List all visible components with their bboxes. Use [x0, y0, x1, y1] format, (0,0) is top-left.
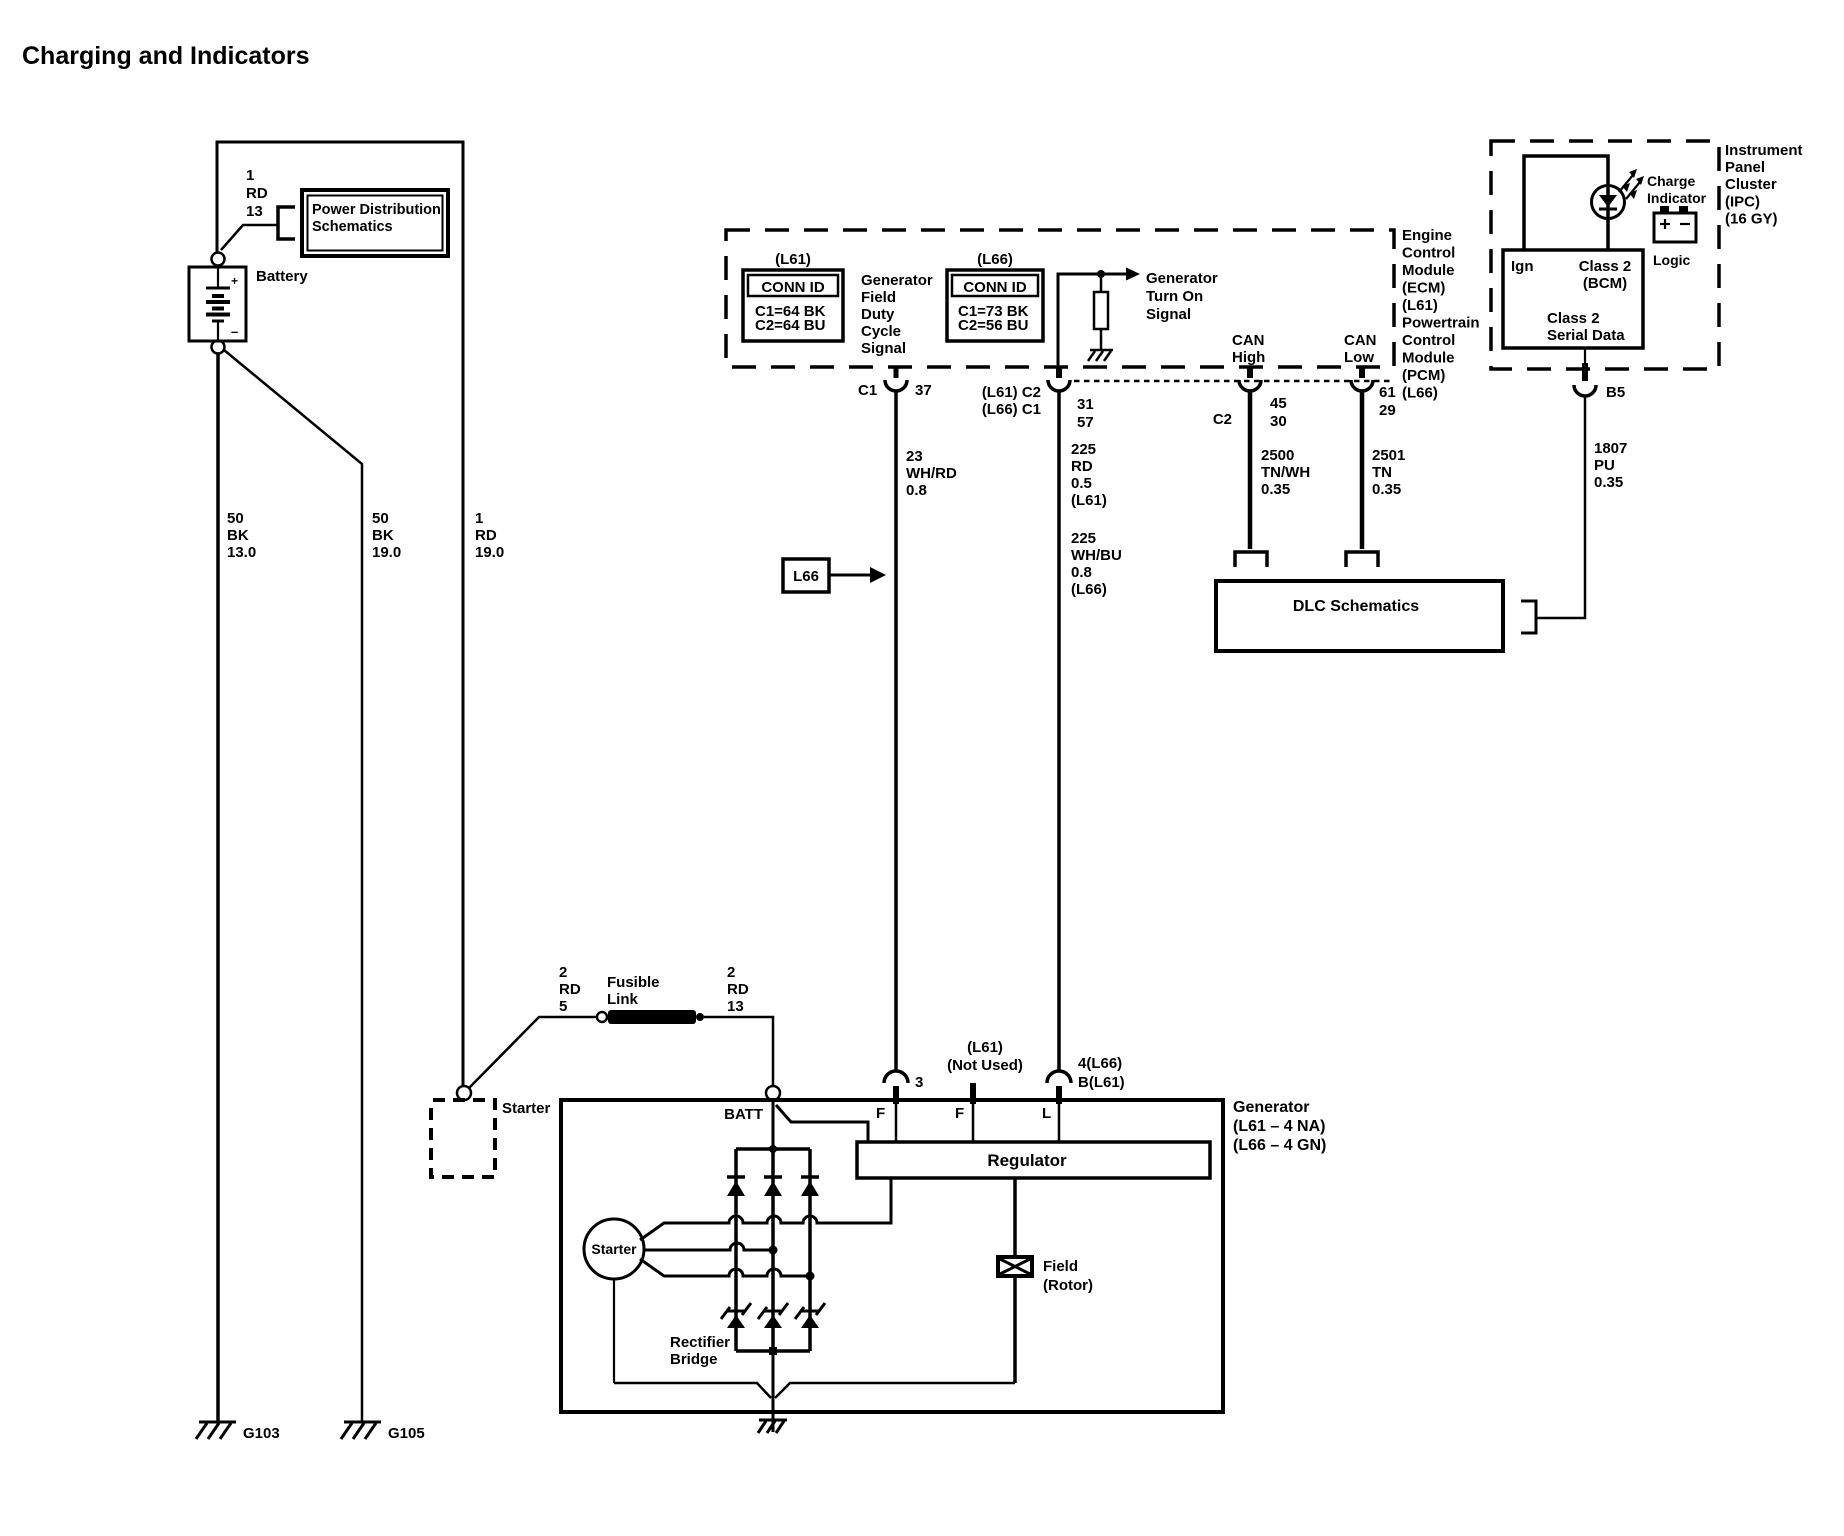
- svg-text:13: 13: [246, 203, 263, 220]
- wire IPC internal loop: [1524, 156, 1608, 250]
- wire F pin into regulator: [895, 1104, 898, 1142]
- box Class 2 (BCM) / Class 2 Serial Data: [1503, 250, 1643, 348]
- svg-text:Duty: Duty: [861, 306, 895, 323]
- svg-text:0.8: 0.8: [906, 482, 927, 499]
- svg-text:BK: BK: [227, 527, 249, 544]
- svg-text:RD: RD: [559, 981, 581, 998]
- svg-text:1807: 1807: [1594, 440, 1627, 457]
- svg-text:CONN ID: CONN ID: [963, 279, 1027, 296]
- svg-text:61: 61: [1379, 384, 1396, 401]
- svg-text:TN/WH: TN/WH: [1261, 464, 1310, 481]
- svg-text:CAN: CAN: [1232, 332, 1265, 349]
- L66 callout box: [783, 559, 829, 592]
- stator phase wire 1: [640, 1178, 891, 1240]
- svg-text:Signal: Signal: [861, 340, 906, 357]
- connector C1 pin 37 at ECM: [894, 366, 899, 378]
- wire battery feed loop top: [216, 141, 465, 144]
- box Power Distribution Schematics: [302, 190, 448, 256]
- svg-text:Instrument: Instrument: [1725, 142, 1803, 159]
- node starter feed junction: [457, 1086, 471, 1100]
- connector L pin at generator: [1047, 1071, 1071, 1083]
- svg-text:Rectifier: Rectifier: [670, 1334, 730, 1351]
- svg-text:13: 13: [727, 998, 744, 1015]
- wire right drop to starter: [462, 142, 465, 1086]
- wire L pin into regulator: [1058, 1104, 1061, 1142]
- svg-text:RD: RD: [727, 981, 749, 998]
- dotted connector continuation line: [1074, 380, 1392, 383]
- svg-text:(ECM): (ECM): [1402, 280, 1445, 297]
- svg-text:Control: Control: [1402, 245, 1455, 262]
- resistor pull-down R1: [1100, 274, 1103, 292]
- wire class 2 serial data to DLC: [1537, 396, 1585, 618]
- svg-text:L66: L66: [793, 568, 819, 585]
- svg-text:(L61): (L61): [1402, 297, 1438, 314]
- svg-text:Class 2: Class 2: [1579, 258, 1632, 275]
- node battery negative terminal: [212, 341, 225, 354]
- wire fusible link to BATT: [704, 1017, 773, 1086]
- svg-text:0.8: 0.8: [1071, 564, 1092, 581]
- svg-text:1: 1: [246, 167, 254, 184]
- svg-text:(Not Used): (Not Used): [947, 1057, 1023, 1074]
- wire CAN Low 2501 TN 0.35: [1360, 391, 1365, 549]
- svg-text:23: 23: [906, 448, 923, 465]
- svg-text:C2: C2: [1213, 411, 1232, 428]
- svg-text:Cluster: Cluster: [1725, 176, 1777, 193]
- svg-text:CONN ID: CONN ID: [761, 279, 825, 296]
- svg-text:L: L: [1042, 1105, 1051, 1122]
- svg-text:19.0: 19.0: [475, 544, 504, 561]
- LED charge indicator: [1592, 186, 1625, 219]
- rectifier bridge top bus: [736, 1147, 810, 1151]
- svg-text:Module: Module: [1402, 262, 1455, 279]
- bridge vertical phase legs: [734, 1149, 738, 1351]
- svg-text:(IPC): (IPC): [1725, 194, 1760, 211]
- zener diode Z3: [795, 1303, 825, 1328]
- arrow turn-on signal: [1126, 268, 1140, 281]
- connector DLC right cavity: [1521, 601, 1536, 633]
- svg-text:(L61): (L61): [775, 251, 811, 268]
- connector C2/C1 pin at ECM: [1056, 366, 1062, 378]
- svg-text:B(L61): B(L61): [1078, 1074, 1125, 1091]
- CONN ID table L61: [743, 270, 843, 341]
- svg-text:Schematics: Schematics: [312, 219, 393, 235]
- zener diode Z2: [758, 1303, 788, 1328]
- lightning arrows: [1619, 169, 1644, 199]
- node BATT terminal: [766, 1086, 780, 1100]
- svg-text:–: –: [231, 324, 238, 339]
- svg-text:0.35: 0.35: [1261, 481, 1290, 498]
- svg-text:(16 GY): (16 GY): [1725, 211, 1778, 228]
- connector B5 at IPC: [1584, 348, 1586, 363]
- wire battery negative diagonal branch: [224, 350, 362, 1421]
- svg-text:Cycle: Cycle: [861, 323, 901, 340]
- svg-text:TN: TN: [1372, 464, 1392, 481]
- svg-text:RD: RD: [246, 185, 268, 202]
- arrow L66 to wire: [829, 574, 871, 577]
- svg-text:WH/BU: WH/BU: [1071, 547, 1122, 564]
- svg-text:(L66): (L66): [977, 251, 1013, 268]
- wire 225 RD / WH-BU: [1057, 391, 1061, 1070]
- wire left drop to battery +: [216, 142, 219, 253]
- wire battery + to Power Distribution bracket: [221, 225, 277, 250]
- svg-text:37: 37: [915, 382, 932, 399]
- svg-text:Power Distribution: Power Distribution: [312, 202, 441, 218]
- wire bridge to ground: [772, 1351, 775, 1432]
- svg-text:DLC Schematics: DLC Schematics: [1293, 598, 1419, 615]
- rectifier bridge bottom bus: [736, 1349, 810, 1353]
- svg-text:(PCM): (PCM): [1402, 367, 1445, 384]
- stator phase wire 3: [640, 1259, 810, 1276]
- svg-text:(L66 – 4 GN): (L66 – 4 GN): [1233, 1137, 1326, 1154]
- svg-text:(L61) C2: (L61) C2: [982, 384, 1041, 401]
- svg-text:(L66): (L66): [1071, 581, 1107, 598]
- svg-text:Regulator: Regulator: [987, 1151, 1067, 1170]
- wire regulator to field: [1013, 1178, 1017, 1257]
- svg-text:Field: Field: [1043, 1258, 1078, 1275]
- svg-text:0.35: 0.35: [1372, 481, 1401, 498]
- svg-text:2500: 2500: [1261, 447, 1294, 464]
- svg-text:Field: Field: [861, 289, 896, 306]
- svg-text:Generator: Generator: [1146, 270, 1218, 287]
- node battery positive terminal: [212, 253, 225, 266]
- svg-text:(L66) C1: (L66) C1: [982, 401, 1041, 418]
- svg-text:RD: RD: [475, 527, 497, 544]
- svg-text:Indicator: Indicator: [1647, 190, 1707, 206]
- svg-text:Ign: Ign: [1511, 258, 1534, 275]
- svg-text:Logic: Logic: [1653, 252, 1691, 268]
- svg-text:Serial Data: Serial Data: [1547, 327, 1625, 344]
- svg-text:50: 50: [227, 510, 244, 527]
- svg-text:225: 225: [1071, 441, 1096, 458]
- svg-text:F: F: [955, 1105, 964, 1122]
- svg-text:Generator: Generator: [861, 272, 933, 289]
- connector CAN Low pin: [1359, 366, 1365, 378]
- svg-text:Bridge: Bridge: [670, 1351, 718, 1368]
- svg-text:(L61 – 4 NA): (L61 – 4 NA): [1233, 1118, 1325, 1135]
- box DLC Schematics: [1216, 581, 1503, 651]
- diode D3: [801, 1177, 819, 1196]
- svg-text:0.35: 0.35: [1594, 474, 1623, 491]
- svg-text:(L66): (L66): [1402, 385, 1438, 402]
- wire starter junction to fusible link: [469, 1017, 597, 1088]
- svg-text:Low: Low: [1344, 349, 1374, 366]
- svg-text:50: 50: [372, 510, 389, 527]
- battery B1: [189, 266, 246, 341]
- wire starter to ground bus: [613, 1279, 615, 1383]
- stator phase wire 2: [644, 1243, 773, 1250]
- wire CAN High 2500 TN/WH 0.35: [1248, 391, 1253, 549]
- wire BATT into regulator: [776, 1105, 868, 1142]
- svg-text:Powertrain: Powertrain: [1402, 315, 1480, 332]
- pin F not used: [970, 1083, 976, 1104]
- svg-text:Generator: Generator: [1233, 1099, 1309, 1116]
- connector F pin 3 at generator: [884, 1071, 908, 1083]
- wire battery negative to G103: [216, 354, 220, 1421]
- wire F2 pin into regulator: [972, 1104, 975, 1142]
- wire field to ground bus: [1013, 1276, 1017, 1383]
- fusible link F1: [597, 1012, 607, 1022]
- svg-text:RD: RD: [1071, 458, 1093, 475]
- connector DLC CAN High cavity: [1235, 552, 1267, 567]
- svg-text:Fusible: Fusible: [607, 974, 660, 991]
- svg-text:B5: B5: [1606, 384, 1625, 401]
- svg-text:5: 5: [559, 998, 567, 1015]
- svg-text:High: High: [1232, 349, 1265, 366]
- svg-text:CAN: CAN: [1344, 332, 1377, 349]
- svg-text:Charge: Charge: [1647, 173, 1695, 189]
- starter motor circle: [584, 1219, 644, 1279]
- svg-text:C2=64 BU: C2=64 BU: [755, 317, 825, 334]
- svg-text:2501: 2501: [1372, 447, 1405, 464]
- ground bus right: [775, 1383, 1015, 1398]
- connector DLC CAN Low cavity: [1346, 552, 1378, 567]
- generator box: [561, 1100, 1223, 1412]
- svg-text:Charging and Indicators: Charging and Indicators: [22, 42, 310, 70]
- svg-text:2: 2: [559, 964, 567, 981]
- svg-text:225: 225: [1071, 530, 1096, 547]
- svg-text:BATT: BATT: [724, 1106, 763, 1123]
- ECM/PCM dashed box: [726, 230, 1394, 367]
- svg-text:Starter: Starter: [502, 1100, 551, 1117]
- svg-text:BK: BK: [372, 527, 394, 544]
- svg-text:0.5: 0.5: [1071, 475, 1092, 492]
- svg-text:Turn On: Turn On: [1146, 288, 1203, 305]
- connector CAN High pin: [1247, 366, 1253, 378]
- svg-text:PU: PU: [1594, 457, 1615, 474]
- starter dashed box: [431, 1100, 495, 1177]
- svg-text:Link: Link: [607, 991, 638, 1008]
- svg-text:13.0: 13.0: [227, 544, 256, 561]
- svg-text:Control: Control: [1402, 332, 1455, 349]
- svg-text:(BCM): (BCM): [1583, 275, 1627, 292]
- svg-text:Engine: Engine: [1402, 227, 1452, 244]
- svg-text:Starter: Starter: [591, 1241, 637, 1257]
- svg-text:C1: C1: [858, 382, 877, 399]
- svg-text:4(L66): 4(L66): [1078, 1055, 1122, 1072]
- regulator box: [857, 1142, 1210, 1178]
- ground bus left: [614, 1383, 771, 1398]
- svg-text:57: 57: [1077, 414, 1094, 431]
- battery icon in IPC: [1654, 206, 1696, 242]
- svg-text:F: F: [876, 1105, 885, 1122]
- wire 23 WH/RD 0.8: [894, 391, 898, 1070]
- svg-text:G105: G105: [388, 1425, 425, 1442]
- svg-text:Class 2: Class 2: [1547, 310, 1600, 327]
- wire BATT down to bridge: [772, 1100, 775, 1149]
- svg-text:(Rotor): (Rotor): [1043, 1277, 1093, 1294]
- svg-text:45: 45: [1270, 395, 1287, 412]
- ground G105: [341, 1422, 381, 1439]
- svg-text:3: 3: [915, 1074, 923, 1091]
- zener diode Z1: [721, 1303, 751, 1328]
- svg-text:Module: Module: [1402, 350, 1455, 367]
- ground G103: [196, 1422, 236, 1439]
- svg-text:30: 30: [1270, 413, 1287, 430]
- svg-text:+: +: [231, 274, 238, 288]
- wire generator turn on signal: [1058, 274, 1127, 366]
- svg-text:31: 31: [1077, 396, 1094, 413]
- svg-text:2: 2: [727, 964, 735, 981]
- svg-text:Signal: Signal: [1146, 306, 1191, 323]
- IPC dashed box: [1491, 141, 1719, 369]
- diode D2: [764, 1177, 782, 1196]
- svg-text:WH/RD: WH/RD: [906, 465, 957, 482]
- diode D1: [727, 1177, 745, 1196]
- svg-text:1: 1: [475, 510, 483, 527]
- svg-text:(L61): (L61): [1071, 492, 1107, 509]
- connector bracket to Power Distribution Schematics: [278, 207, 295, 239]
- svg-text:(L61): (L61): [967, 1039, 1003, 1056]
- svg-text:C2=56 BU: C2=56 BU: [958, 317, 1028, 334]
- CONN ID table L66: [947, 270, 1043, 341]
- svg-text:19.0: 19.0: [372, 544, 401, 561]
- ground generator case: [758, 1420, 787, 1433]
- svg-text:G103: G103: [243, 1425, 280, 1442]
- svg-text:29: 29: [1379, 402, 1396, 419]
- svg-text:Panel: Panel: [1725, 159, 1765, 176]
- field rotor winding: [998, 1257, 1032, 1276]
- node junction turn-on / pull-down: [1097, 270, 1105, 278]
- svg-text:Battery: Battery: [256, 268, 308, 285]
- ground internal ECM: [1088, 350, 1113, 361]
